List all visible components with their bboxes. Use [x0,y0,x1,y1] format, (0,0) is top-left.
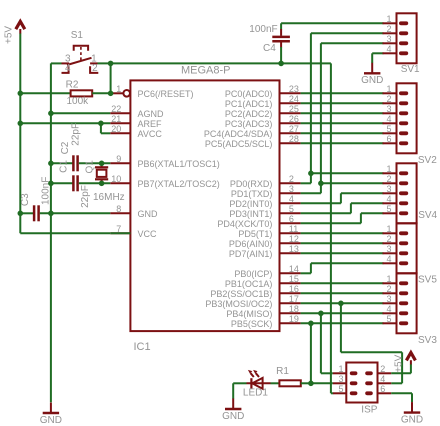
svg-text:26: 26 [289,114,299,124]
svg-text:Q1: Q1 [85,160,96,174]
svg-text:PD7(AIN1): PD7(AIN1) [229,249,273,259]
svg-text:PD2(INT0): PD2(INT0) [229,199,272,209]
svg-text:3: 3 [386,244,391,254]
svg-text:14: 14 [289,264,299,274]
svg-text:LED1: LED1 [243,387,268,398]
svg-text:C2: C2 [60,141,71,154]
svg-text:5: 5 [386,204,391,214]
svg-text:PB5(SCK): PB5(SCK) [231,319,273,329]
svg-text:AGND: AGND [138,109,165,119]
svg-text:PC6(/RESET): PC6(/RESET) [138,89,194,99]
svg-text:1: 1 [386,224,391,234]
svg-text:5: 5 [386,314,391,324]
svg-text:C3: C3 [20,193,31,206]
svg-text:13: 13 [289,244,299,254]
svg-text:R2: R2 [66,79,79,90]
svg-text:PD0(RXD): PD0(RXD) [230,179,273,189]
svg-text:AREF: AREF [138,119,163,129]
svg-text:19: 19 [289,314,299,324]
svg-text:15: 15 [289,274,299,284]
svg-text:SV2: SV2 [418,155,437,166]
svg-text:GND: GND [138,209,159,219]
svg-text:PC1(ADC1): PC1(ADC1) [225,99,273,109]
svg-text:5: 5 [386,124,391,134]
svg-text:1: 1 [386,274,391,284]
svg-text:9: 9 [116,154,121,164]
svg-text:28: 28 [289,134,299,144]
svg-text:PC5(ADC5/SCL): PC5(ADC5/SCL) [205,139,273,149]
svg-text:16MHz: 16MHz [93,192,125,203]
svg-text:1: 1 [338,364,343,374]
svg-text:S1: S1 [71,30,84,41]
svg-text:4: 4 [386,114,391,124]
svg-text:+5V: +5V [4,26,15,44]
svg-text:SV3: SV3 [418,335,437,346]
svg-text:12: 12 [289,234,299,244]
svg-text:SV4: SV4 [418,210,437,221]
svg-text:4: 4 [65,63,71,74]
svg-text:GND: GND [40,415,62,426]
svg-text:C4: C4 [263,43,276,54]
svg-text:4: 4 [380,374,385,384]
svg-text:PC2(ADC2): PC2(ADC2) [225,109,273,119]
svg-text:ISP: ISP [361,405,377,416]
svg-text:2: 2 [380,364,385,374]
svg-text:4: 4 [386,194,391,204]
svg-text:VCC: VCC [138,229,158,239]
svg-text:3: 3 [386,184,391,194]
svg-text:PC0(ADC0): PC0(ADC0) [225,89,273,99]
svg-text:AVCC: AVCC [138,129,163,139]
svg-text:PD4(XCK/T0): PD4(XCK/T0) [217,219,272,229]
svg-text:SV1: SV1 [401,64,420,75]
svg-text:23: 23 [289,84,299,94]
svg-text:SV5: SV5 [418,275,437,286]
svg-text:IC1: IC1 [134,341,151,353]
svg-text:2: 2 [289,174,294,184]
svg-text:3: 3 [386,34,391,44]
svg-text:6: 6 [380,384,385,394]
svg-text:2: 2 [386,234,391,244]
svg-text:PC4(ADC4/SDA): PC4(ADC4/SDA) [204,129,273,139]
svg-text:2: 2 [386,24,391,34]
svg-text:22pF: 22pF [80,185,91,208]
svg-text:2: 2 [386,94,391,104]
svg-text:GND: GND [222,411,244,422]
svg-text:PB3(MOSI/OC2): PB3(MOSI/OC2) [205,299,272,309]
svg-text:4: 4 [289,194,294,204]
svg-text:3: 3 [289,184,294,194]
svg-text:5: 5 [289,204,294,214]
svg-text:PB1(OC1A): PB1(OC1A) [225,279,273,289]
svg-text:3: 3 [386,104,391,114]
svg-text:20: 20 [111,124,121,134]
svg-text:3: 3 [338,374,343,384]
svg-text:1: 1 [116,84,121,94]
svg-text:21: 21 [111,114,121,124]
svg-text:GND: GND [401,414,423,425]
svg-text:24: 24 [289,94,299,104]
svg-text:6: 6 [386,134,391,144]
svg-text:8: 8 [116,204,121,214]
svg-text:5: 5 [338,384,343,394]
svg-text:100nF: 100nF [249,24,277,35]
svg-text:R1: R1 [276,366,289,377]
svg-text:22pF: 22pF [71,123,82,146]
svg-text:3: 3 [386,294,391,304]
svg-text:C1: C1 [59,160,70,173]
svg-text:100k: 100k [67,96,90,107]
svg-text:10: 10 [111,174,121,184]
svg-text:22: 22 [111,104,121,114]
svg-text:17: 17 [289,294,299,304]
svg-text:PD3(INT1): PD3(INT1) [229,209,272,219]
svg-text:25: 25 [289,104,299,114]
svg-text:1: 1 [386,84,391,94]
svg-text:4: 4 [386,304,391,314]
svg-text:GND: GND [361,75,383,86]
svg-text:PB6(XTAL1/TOSC1): PB6(XTAL1/TOSC1) [138,159,220,169]
svg-text:4: 4 [386,44,391,54]
svg-text:PD1(TXD): PD1(TXD) [231,189,273,199]
svg-text:1: 1 [386,14,391,24]
svg-text:PC3(ADC3): PC3(ADC3) [225,119,273,129]
svg-text:2: 2 [386,174,391,184]
svg-text:PB7(XTAL2/TOSC2): PB7(XTAL2/TOSC2) [138,179,220,189]
svg-text:2: 2 [92,63,98,74]
svg-text:4: 4 [386,254,391,264]
svg-text:16: 16 [289,284,299,294]
svg-text:27: 27 [289,124,299,134]
svg-text:PB2(SS/OC1B): PB2(SS/OC1B) [210,289,272,299]
svg-text:PD6(AIN0): PD6(AIN0) [229,239,273,249]
svg-text:MEGA8-P: MEGA8-P [181,65,231,77]
svg-text:18: 18 [289,304,299,314]
svg-text:1: 1 [386,164,391,174]
svg-text:PB4(MISO): PB4(MISO) [226,309,272,319]
svg-text:11: 11 [289,224,298,234]
svg-text:PD5(T1): PD5(T1) [238,229,272,239]
svg-text:6: 6 [289,214,294,224]
svg-text:+5V: +5V [394,354,405,372]
svg-text:2: 2 [386,284,391,294]
svg-text:PB0(ICP): PB0(ICP) [234,269,272,279]
